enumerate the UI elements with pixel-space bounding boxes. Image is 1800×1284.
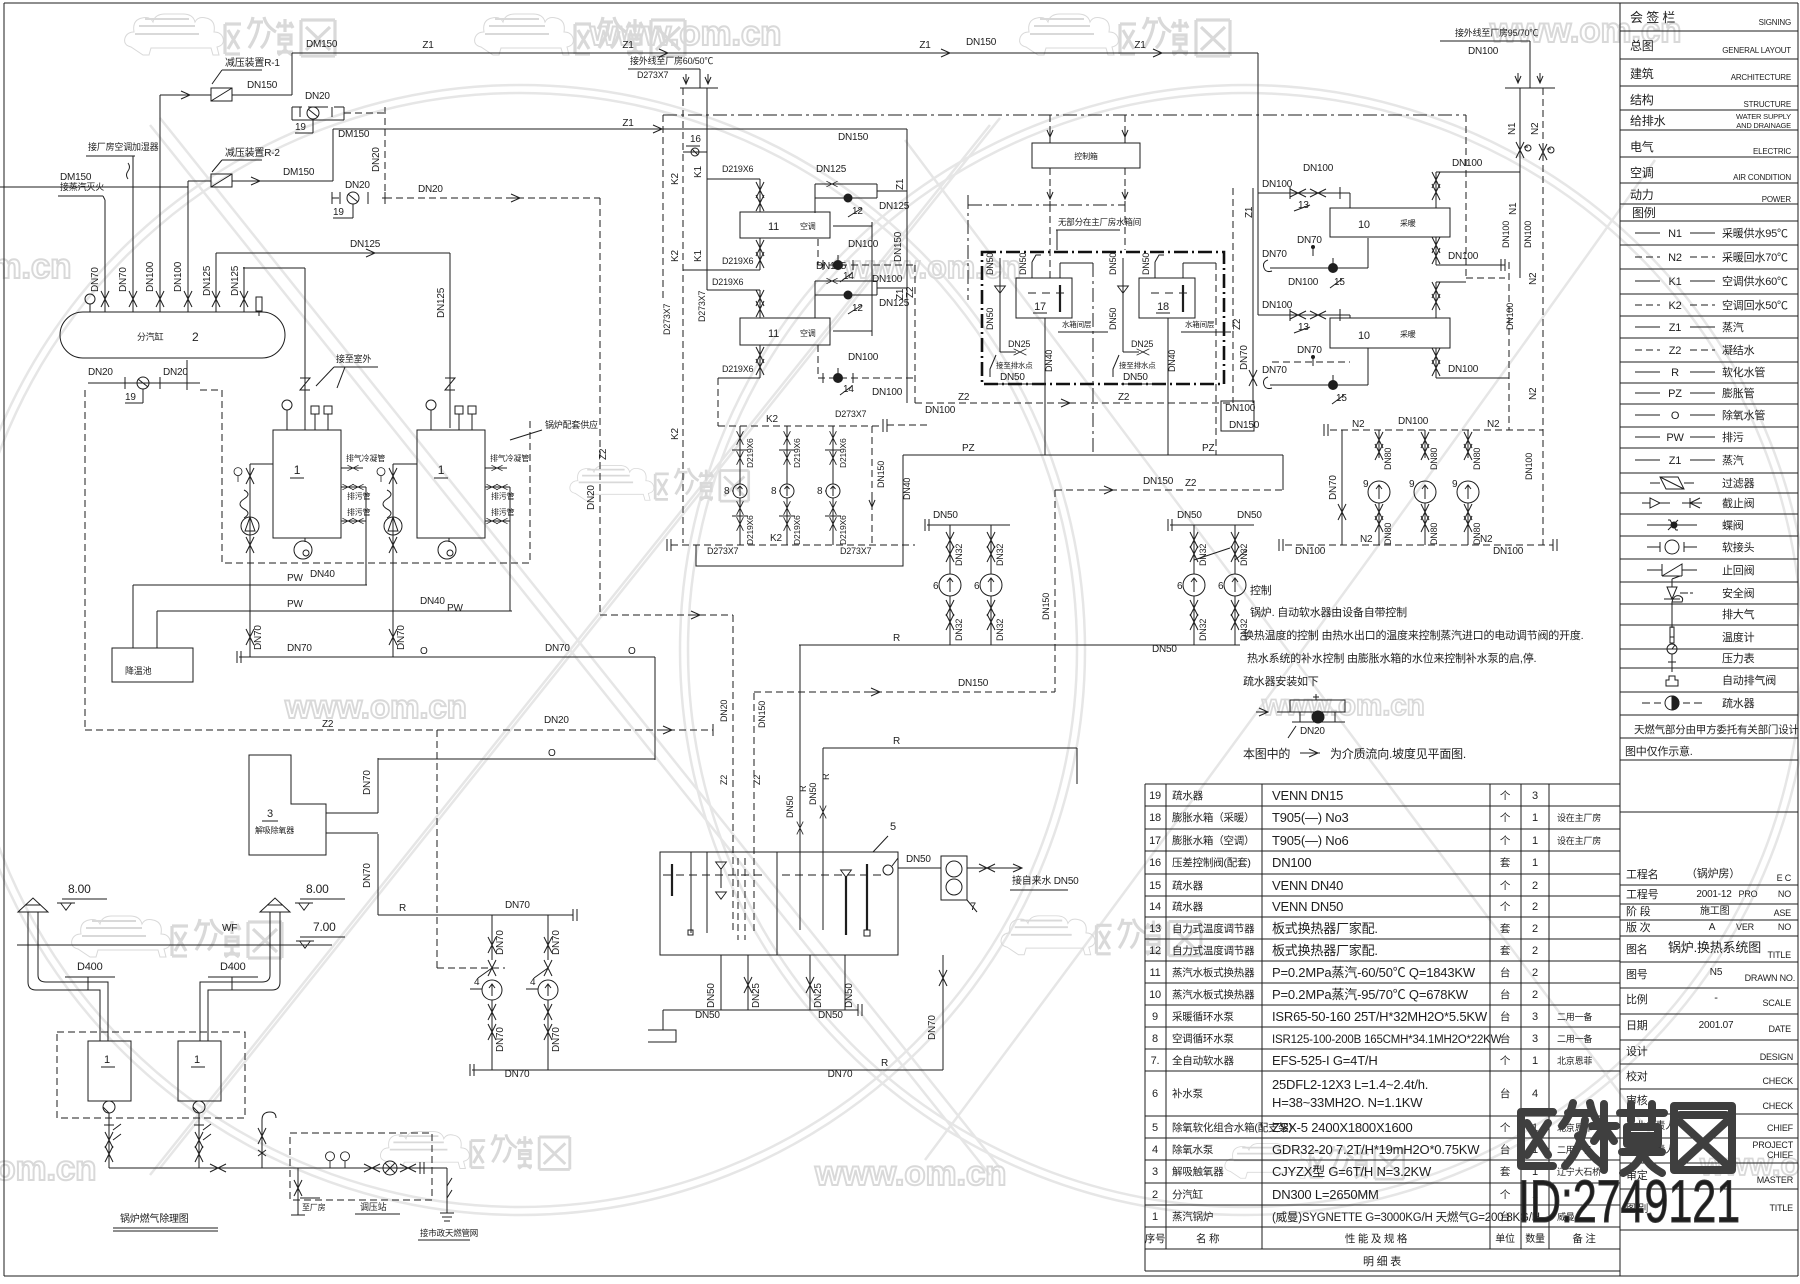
svg-text:9: 9 (1363, 479, 1369, 490)
svg-text:N2: N2 (1487, 419, 1500, 430)
svg-text:DN100: DN100 (1505, 303, 1515, 330)
svg-text:DN80: DN80 (1472, 448, 1482, 470)
svg-text:GDR32-20 7.2T/H*19mH2O*0.75KW: GDR32-20 7.2T/H*19mH2O*0.75KW (1272, 1142, 1480, 1157)
svg-text:止回阀: 止回阀 (1722, 563, 1755, 577)
svg-text:14: 14 (843, 384, 854, 395)
svg-text:DN40: DN40 (310, 569, 335, 580)
svg-text:25DFL2-12X3 L=1.4~2.4t/h.: 25DFL2-12X3 L=1.4~2.4t/h. (1272, 1077, 1428, 1092)
svg-text:DN70: DN70 (927, 1015, 938, 1040)
svg-text:DN125: DN125 (436, 287, 447, 318)
svg-text:DN150: DN150 (876, 461, 886, 488)
svg-text:N2: N2 (1668, 252, 1682, 264)
svg-text:8: 8 (771, 486, 777, 497)
svg-text:1: 1 (1532, 1055, 1538, 1067)
svg-text:为介质流向.坡度见平面图.: 为介质流向.坡度见平面图. (1330, 746, 1466, 761)
svg-text:DN50: DN50 (844, 983, 855, 1008)
svg-text:工程号: 工程号 (1626, 888, 1659, 901)
svg-text:MASTER: MASTER (1757, 1175, 1794, 1185)
svg-text:DN100: DN100 (1524, 453, 1534, 480)
svg-text:DN150: DN150 (1143, 476, 1174, 487)
svg-text:1: 1 (1532, 857, 1538, 869)
svg-text:全自动软水器: 全自动软水器 (1172, 1054, 1234, 1067)
svg-text:DN50: DN50 (933, 510, 958, 521)
svg-text:12: 12 (1149, 945, 1161, 957)
svg-text:换热温度的控制 由热水出口的温度来控制蒸汽进口的电动调节阀的: 换热温度的控制 由热水出口的温度来控制蒸汽进口的电动调节阀的开度. (1243, 628, 1584, 642)
svg-text:DM150: DM150 (306, 39, 338, 50)
svg-text:排污: 排污 (1722, 430, 1744, 444)
svg-text:DN100: DN100 (1295, 546, 1326, 557)
svg-text:排气冷凝管: 排气冷凝管 (490, 453, 529, 463)
svg-text:6: 6 (933, 581, 939, 592)
svg-text:DM150: DM150 (283, 167, 315, 178)
svg-text:分汽缸: 分汽缸 (137, 331, 164, 342)
svg-text:ASE: ASE (1774, 908, 1792, 918)
svg-text:板式换热器厂家配.: 板式换热器厂家配. (1272, 943, 1378, 958)
svg-text:K2: K2 (670, 250, 681, 262)
svg-text:温度计: 温度计 (1722, 630, 1755, 644)
svg-text:N1: N1 (1507, 122, 1518, 135)
svg-text:R: R (881, 1058, 888, 1069)
svg-text:D219X6: D219X6 (838, 515, 848, 545)
svg-text:N2: N2 (1530, 122, 1541, 135)
svg-text:10: 10 (1358, 219, 1370, 231)
svg-text:DN25: DN25 (1131, 339, 1153, 349)
svg-text:Z2: Z2 (322, 719, 334, 730)
svg-text:DN100: DN100 (1501, 221, 1511, 248)
svg-text:VER: VER (1736, 922, 1755, 932)
svg-text:PZ: PZ (1202, 443, 1214, 454)
svg-text:4: 4 (1532, 1088, 1538, 1100)
svg-text:性 能 及 规 格: 性 能 及 规 格 (1345, 1232, 1408, 1245)
svg-text:16: 16 (1149, 857, 1161, 869)
svg-text:WF: WF (222, 923, 237, 934)
svg-text:6: 6 (1177, 581, 1183, 592)
svg-text:13: 13 (1149, 923, 1161, 935)
svg-text:补水泵: 补水泵 (1172, 1087, 1204, 1100)
svg-text:DN32: DN32 (995, 619, 1005, 641)
svg-text:二用一备: 二用一备 (1557, 1011, 1592, 1022)
svg-text:K2: K2 (766, 414, 778, 425)
svg-text:P=0.2MPa蒸汽-60/50℃ Q=1843KW: P=0.2MPa蒸汽-60/50℃ Q=1843KW (1272, 965, 1476, 980)
svg-text:8.00: 8.00 (68, 882, 91, 896)
svg-text:2: 2 (1532, 967, 1538, 979)
svg-text:解吸除氧器: 解吸除氧器 (255, 825, 294, 835)
svg-text:D273X7: D273X7 (840, 546, 872, 556)
svg-text:WATER SUPPLY: WATER SUPPLY (1736, 112, 1791, 121)
svg-text:8: 8 (724, 486, 730, 497)
svg-text:除氧水泵: 除氧水泵 (1172, 1143, 1214, 1156)
svg-text:图例: 图例 (1632, 206, 1656, 220)
svg-text:排污管: 排污管 (347, 491, 371, 501)
svg-text:空调: 空调 (1630, 166, 1654, 180)
svg-text:EFS-525-I G=4T/H: EFS-525-I G=4T/H (1272, 1053, 1378, 1068)
svg-text:Z2: Z2 (1118, 392, 1130, 403)
svg-text:DN50: DN50 (906, 854, 931, 865)
svg-text:DN20: DN20 (305, 91, 330, 102)
svg-text:DN125: DN125 (350, 239, 381, 250)
svg-text:K2: K2 (1668, 300, 1681, 312)
svg-text:DN50: DN50 (695, 1010, 720, 1021)
svg-text:VENN DN50: VENN DN50 (1272, 899, 1343, 914)
svg-text:D273X7: D273X7 (637, 70, 669, 80)
svg-text:排污管: 排污管 (347, 507, 371, 517)
svg-text:DN25: DN25 (813, 983, 824, 1008)
svg-text:接自来水 DN50: 接自来水 DN50 (1012, 874, 1079, 887)
svg-text:R: R (1671, 367, 1679, 379)
svg-text:DN20: DN20 (1300, 726, 1325, 737)
svg-text:DN100: DN100 (1448, 251, 1479, 262)
svg-text:DN80: DN80 (1429, 523, 1439, 545)
svg-text:ISR65-50-160 25T/H*32MH2O*5.5K: ISR65-50-160 25T/H*32MH2O*5.5KW (1272, 1009, 1488, 1024)
svg-text:过滤器: 过滤器 (1722, 477, 1755, 490)
svg-text:电气: 电气 (1630, 139, 1654, 154)
svg-text:N2: N2 (1480, 534, 1493, 545)
svg-text:套: 套 (1500, 922, 1511, 935)
svg-text:锅炉燃气除理图: 锅炉燃气除理图 (120, 1212, 189, 1225)
svg-text:N5: N5 (1710, 967, 1723, 978)
svg-text:DN50: DN50 (1237, 510, 1262, 521)
svg-text:无部分在主厂房水箱间: 无部分在主厂房水箱间 (1058, 217, 1141, 227)
svg-text:接外线至厂房95/70℃: 接外线至厂房95/70℃ (1455, 27, 1538, 38)
svg-text:DN50: DN50 (1123, 372, 1148, 383)
svg-text:ARCHITECTURE: ARCHITECTURE (1731, 73, 1791, 82)
svg-text:DN50: DN50 (1108, 308, 1118, 330)
svg-text:套: 套 (1500, 944, 1511, 957)
svg-text:锅炉配套供应: 锅炉配套供应 (545, 419, 598, 430)
svg-text:DN70: DN70 (362, 863, 373, 888)
svg-text:动力: 动力 (1630, 188, 1654, 202)
svg-text:DN20: DN20 (544, 715, 569, 726)
svg-text:除氧水管: 除氧水管 (1722, 408, 1765, 422)
svg-text:比例: 比例 (1626, 992, 1648, 1006)
svg-text:施工图: 施工图 (1700, 904, 1730, 917)
svg-text:本图中的: 本图中的 (1243, 746, 1290, 761)
svg-text:1: 1 (294, 463, 301, 477)
svg-text:DN100: DN100 (872, 387, 903, 398)
svg-text:6: 6 (1152, 1088, 1158, 1100)
svg-text:DM150: DM150 (338, 129, 370, 140)
svg-text:D219X6: D219X6 (745, 438, 755, 468)
svg-text:T905(—) No3: T905(—) No3 (1272, 810, 1349, 825)
svg-text:台: 台 (1500, 1087, 1510, 1100)
svg-text:O: O (420, 646, 428, 657)
svg-text:Z2: Z2 (598, 448, 609, 460)
svg-text:K2: K2 (770, 533, 782, 544)
svg-text:DN70: DN70 (253, 625, 264, 650)
svg-text:DM150: DM150 (60, 172, 92, 183)
svg-text:5: 5 (890, 821, 896, 833)
svg-text:K1: K1 (693, 166, 704, 178)
svg-text:图中仅作示意.: 图中仅作示意. (1625, 744, 1693, 758)
svg-text:N2: N2 (1528, 272, 1539, 285)
svg-text:DN50: DN50 (1141, 253, 1151, 275)
svg-text:CHECK: CHECK (1762, 1101, 1793, 1111)
svg-text:DN125: DN125 (230, 265, 241, 296)
svg-text:DN40: DN40 (420, 596, 445, 607)
svg-text:Z2: Z2 (1669, 345, 1682, 357)
svg-text:会 签 栏: 会 签 栏 (1630, 10, 1675, 25)
svg-text:DN125: DN125 (879, 298, 910, 309)
svg-text:DN80: DN80 (1429, 448, 1439, 470)
svg-text:ID:2749121: ID:2749121 (1518, 1168, 1740, 1235)
svg-text:DN25: DN25 (751, 983, 762, 1008)
svg-text:3: 3 (1532, 1033, 1538, 1045)
svg-text:采暖: 采暖 (1400, 329, 1416, 339)
svg-text:DN70: DN70 (90, 267, 101, 292)
svg-text:R: R (893, 633, 900, 644)
svg-text:DN40: DN40 (1044, 350, 1054, 372)
svg-text:DN80: DN80 (1383, 523, 1393, 545)
svg-text:设在主厂房: 设在主厂房 (1557, 835, 1601, 846)
svg-text:Z1: Z1 (1669, 322, 1682, 334)
svg-text:蒸汽: 蒸汽 (1722, 320, 1744, 334)
svg-text:2: 2 (1532, 989, 1538, 1001)
svg-text:蒸汽水板式换热器: 蒸汽水板式换热器 (1172, 966, 1255, 979)
svg-text:排污管: 排污管 (491, 491, 515, 501)
svg-text:至厂房: 至厂房 (302, 1202, 326, 1212)
svg-text:膨胀水箱（采暖）: 膨胀水箱（采暖） (1172, 811, 1254, 824)
svg-text:分汽缸: 分汽缸 (1172, 1188, 1204, 1201)
svg-text:Z2: Z2 (1232, 318, 1243, 330)
svg-text:空调: 空调 (800, 221, 816, 231)
svg-text:16: 16 (690, 134, 701, 145)
svg-text:PW: PW (287, 599, 303, 610)
svg-text:DN100: DN100 (1398, 416, 1429, 427)
svg-text:DN50: DN50 (1000, 372, 1025, 383)
svg-text:DN50: DN50 (1152, 644, 1177, 655)
svg-text:DN125: DN125 (879, 201, 910, 212)
svg-text:19: 19 (1149, 790, 1161, 802)
svg-text:5: 5 (1152, 1122, 1158, 1134)
svg-text:STRUCTURE: STRUCTURE (1743, 100, 1791, 109)
svg-text:接至排水点: 接至排水点 (996, 360, 1033, 370)
svg-text:Z1: Z1 (1134, 40, 1146, 51)
svg-text:DN150: DN150 (838, 132, 869, 143)
svg-text:二用一备: 二用一备 (1557, 1033, 1592, 1044)
svg-text:DN150: DN150 (1229, 420, 1260, 431)
svg-text:PZ: PZ (962, 443, 974, 454)
svg-text:10: 10 (1149, 989, 1161, 1001)
svg-text:-: - (1714, 992, 1718, 1004)
svg-text:4: 4 (474, 977, 480, 988)
svg-text:POWER: POWER (1762, 195, 1792, 204)
svg-text:疏水器: 疏水器 (1172, 789, 1204, 802)
svg-text:R: R (821, 773, 831, 780)
svg-text:DN150: DN150 (893, 231, 904, 262)
svg-text:调压站: 调压站 (360, 1201, 387, 1212)
svg-text:DN70: DN70 (362, 770, 373, 795)
svg-text:个: 个 (1500, 880, 1511, 892)
svg-text:Z2: Z2 (752, 775, 762, 785)
svg-text:接外线至厂房60/50℃: 接外线至厂房60/50℃ (630, 55, 713, 66)
svg-text:设在主厂房: 设在主厂房 (1557, 812, 1601, 823)
svg-text:DN100: DN100 (1468, 46, 1499, 57)
svg-text:采暖回水70℃: 采暖回水70℃ (1722, 251, 1788, 264)
svg-text:DESIGN: DESIGN (1760, 1052, 1793, 1062)
svg-text:3: 3 (1532, 790, 1538, 802)
svg-text:2: 2 (192, 330, 199, 344)
svg-text:北京恩菲: 北京恩菲 (1557, 1055, 1592, 1066)
svg-text:19: 19 (125, 392, 136, 403)
svg-text:热水系统的补水控制 由膨胀水箱的水位来控制补水泵的启,停.: 热水系统的补水控制 由膨胀水箱的水位来控制补水泵的启,停. (1247, 651, 1537, 665)
svg-text:DN70: DN70 (1239, 345, 1250, 370)
svg-text:减压装置R-2: 减压装置R-2 (225, 146, 280, 159)
svg-text:2001-12: 2001-12 (1696, 889, 1732, 900)
svg-text:DN150: DN150 (958, 678, 989, 689)
svg-text:DN32: DN32 (954, 619, 964, 641)
svg-text:17: 17 (1149, 835, 1161, 847)
svg-text:SIGNING: SIGNING (1759, 18, 1791, 27)
svg-text:天燃气部分由甲方委托有关部门设计: 天燃气部分由甲方委托有关部门设计 (1634, 723, 1799, 736)
svg-text:疏水器安装如下: 疏水器安装如下 (1243, 674, 1319, 688)
svg-text:6: 6 (1218, 581, 1224, 592)
svg-text:板式换热器厂家配.: 板式换热器厂家配. (1272, 921, 1378, 936)
svg-text:台: 台 (1500, 988, 1510, 1001)
svg-text:PW: PW (287, 573, 303, 584)
svg-text:D273X7: D273X7 (697, 290, 707, 322)
svg-text:蒸汽: 蒸汽 (1722, 453, 1744, 467)
svg-text:个: 个 (1500, 1055, 1511, 1067)
svg-text:6: 6 (974, 581, 980, 592)
svg-text:SCALE: SCALE (1762, 998, 1791, 1008)
svg-text:2: 2 (1532, 945, 1538, 957)
svg-text:DN70: DN70 (545, 643, 570, 654)
svg-text:DN20: DN20 (345, 180, 370, 191)
svg-text:D219X6: D219X6 (722, 256, 754, 266)
svg-text:采暖: 采暖 (1400, 218, 1416, 228)
svg-text:自动排气阀: 自动排气阀 (1722, 673, 1776, 687)
svg-text:15: 15 (1334, 277, 1345, 288)
svg-text:给排水: 给排水 (1630, 114, 1666, 128)
svg-text:11: 11 (1149, 967, 1160, 979)
svg-text:ELECTRIC: ELECTRIC (1753, 147, 1791, 156)
svg-text:DN70: DN70 (828, 1069, 853, 1080)
svg-text:9: 9 (1452, 479, 1458, 490)
svg-text:DN25: DN25 (1008, 339, 1030, 349)
svg-text:DN100: DN100 (848, 239, 879, 250)
svg-text:PW: PW (1666, 432, 1684, 444)
svg-text:台: 台 (1500, 1143, 1510, 1156)
svg-text:DN40: DN40 (1167, 350, 1177, 372)
svg-text:DN32: DN32 (995, 544, 1005, 566)
svg-text:N1: N1 (1668, 228, 1682, 240)
svg-text:19: 19 (295, 122, 306, 133)
svg-text:膨胀水箱（空调）: 膨胀水箱（空调） (1172, 834, 1254, 847)
svg-text:DN100: DN100 (1272, 855, 1311, 870)
svg-text:CJYZX型 G=6T/H N=3.2KW: CJYZX型 G=6T/H N=3.2KW (1272, 1164, 1432, 1179)
svg-text:自力式温度调节器: 自力式温度调节器 (1172, 922, 1255, 935)
svg-text:个: 个 (1500, 790, 1511, 802)
svg-text:蒸汽锅炉: 蒸汽锅炉 (1172, 1210, 1213, 1223)
svg-text:DN50: DN50 (1177, 510, 1202, 521)
svg-text:1: 1 (1532, 812, 1538, 824)
svg-text:DN150: DN150 (1041, 593, 1051, 620)
svg-text:A: A (1709, 922, 1716, 933)
svg-text:台: 台 (1500, 966, 1510, 979)
svg-text:18: 18 (1157, 301, 1169, 313)
svg-text:DN100: DN100 (848, 352, 879, 363)
svg-text:总图: 总图 (1630, 39, 1654, 53)
svg-text:VENN DN15: VENN DN15 (1272, 788, 1343, 803)
svg-text:Z2: Z2 (958, 392, 970, 403)
svg-text:空调循环水泵: 空调循环水泵 (1172, 1032, 1234, 1045)
svg-text:2: 2 (1532, 923, 1538, 935)
svg-text:自力式温度调节器: 自力式温度调节器 (1172, 944, 1255, 957)
svg-text:压差控制阀(配套): 压差控制阀(配套) (1172, 856, 1251, 869)
svg-text:台: 台 (1500, 1010, 1510, 1023)
svg-text:D273X7: D273X7 (707, 546, 739, 556)
svg-text:ISR125-100-200B 165CMH*34.1MH2: ISR125-100-200B 165CMH*34.1MH2O*22KW (1272, 1034, 1502, 1046)
svg-text:1: 1 (1532, 835, 1538, 847)
svg-text:压力表: 压力表 (1722, 651, 1755, 665)
svg-text:7.00: 7.00 (313, 920, 336, 934)
svg-text:7.: 7. (1151, 1055, 1160, 1067)
svg-text:Z2: Z2 (719, 775, 729, 785)
svg-text:截止阀: 截止阀 (1722, 496, 1755, 510)
svg-text:DN20: DN20 (418, 184, 443, 195)
svg-text:1: 1 (194, 1054, 200, 1066)
svg-text:DN300 L=2650MM: DN300 L=2650MM (1272, 1187, 1379, 1202)
svg-text:NO: NO (1778, 889, 1791, 899)
svg-text:Z1: Z1 (895, 178, 906, 190)
svg-text:DN50: DN50 (808, 783, 818, 805)
svg-text:结构: 结构 (1630, 92, 1654, 107)
svg-text:锅炉.换热系统图: 锅炉.换热系统图 (1668, 940, 1761, 955)
svg-text:凝结水: 凝结水 (1722, 343, 1755, 357)
svg-text:DN100: DN100 (1493, 546, 1524, 557)
svg-text:D273X7: D273X7 (662, 303, 672, 335)
svg-text:名 称: 名 称 (1196, 1232, 1220, 1245)
svg-text:DN100: DN100 (925, 405, 956, 416)
svg-text:D219X6: D219X6 (712, 277, 744, 287)
svg-text:降温池: 降温池 (125, 665, 152, 676)
svg-text:DN50: DN50 (1018, 253, 1028, 275)
svg-text:K1: K1 (693, 250, 704, 262)
svg-text:DN70: DN70 (118, 267, 129, 292)
svg-text:工程名: 工程名 (1626, 867, 1658, 881)
svg-text:DN125: DN125 (202, 265, 213, 296)
svg-text:Z1: Z1 (1669, 455, 1682, 467)
svg-text:2: 2 (1532, 880, 1538, 892)
svg-text:DN70: DN70 (1328, 475, 1339, 500)
svg-text:ZSX-5 2400X1800X1600: ZSX-5 2400X1800X1600 (1272, 1120, 1413, 1135)
svg-text:台: 台 (1500, 1032, 1510, 1045)
svg-text:N2: N2 (1360, 534, 1373, 545)
svg-text:个: 个 (1500, 1122, 1511, 1134)
svg-text:套: 套 (1500, 856, 1511, 869)
svg-text:1: 1 (104, 1054, 110, 1066)
svg-text:校对: 校对 (1626, 1069, 1648, 1083)
svg-text:明 细 表: 明 细 表 (1363, 1254, 1401, 1268)
svg-text:DN150: DN150 (247, 80, 278, 91)
svg-text:个: 个 (1500, 1189, 1511, 1201)
svg-text:DN100: DN100 (1452, 158, 1483, 169)
svg-text:接至室外: 接至室外 (336, 353, 371, 364)
svg-text:DN70: DN70 (505, 1069, 530, 1080)
svg-text:CHIEF: CHIEF (1767, 1150, 1794, 1160)
svg-text:DN50: DN50 (985, 308, 995, 330)
svg-text:解吸触氧器: 解吸触氧器 (1172, 1165, 1224, 1178)
svg-text:安全阀: 安全阀 (1722, 586, 1755, 600)
svg-text:排大气: 排大气 (1722, 607, 1755, 621)
svg-text:R: R (399, 903, 406, 914)
svg-text:蝶阀: 蝶阀 (1722, 518, 1744, 532)
svg-text:CHECK: CHECK (1762, 1076, 1793, 1086)
svg-text:锅炉. 自动软水器由设备自带控制: 锅炉. 自动软水器由设备自带控制 (1250, 605, 1407, 619)
svg-text:膨胀管: 膨胀管 (1722, 386, 1755, 400)
svg-text:1: 1 (1152, 1211, 1158, 1223)
svg-text:DN20: DN20 (163, 367, 188, 378)
